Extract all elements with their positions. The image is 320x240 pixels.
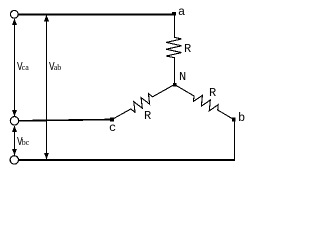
arrow Vbc shaft xyxy=(14,126,16,155)
node c (junction dot) xyxy=(110,118,114,122)
terminal circle mid-left xyxy=(10,117,18,125)
node a (junction dot) xyxy=(172,12,176,16)
arrowhead Vab up xyxy=(44,15,49,21)
node N (junction dot) xyxy=(173,83,177,87)
label R2 value xyxy=(144,110,151,122)
label Vca xyxy=(17,61,29,73)
label c xyxy=(109,122,116,134)
resistor R3 (diagonal, N to b) xyxy=(175,85,234,120)
resistor R1 (vertical, a to N) xyxy=(166,14,181,85)
terminal circle bottom-left xyxy=(10,156,18,164)
wire bottom: b leg to bottom terminal xyxy=(18,159,235,161)
label N xyxy=(179,71,186,83)
label Vab xyxy=(49,61,61,73)
resistor R2 (diagonal, N to c) xyxy=(112,85,175,120)
arrowhead Vab down xyxy=(44,153,49,160)
wire: c to middle terminal xyxy=(19,120,112,121)
label a xyxy=(178,6,185,18)
label R3 value xyxy=(209,87,216,99)
label b xyxy=(238,112,245,124)
label R1 value xyxy=(184,43,191,55)
wire: b down to bottom xyxy=(234,120,236,161)
node b (junction dot) xyxy=(232,118,236,122)
arrow Vab shaft xyxy=(46,15,48,159)
arrowhead Vbc up xyxy=(12,126,17,133)
wire top: terminal to node a xyxy=(18,14,175,16)
arrow Vca shaft xyxy=(14,19,16,116)
terminal circle top-left xyxy=(10,10,18,18)
arrowhead Vca down xyxy=(12,110,17,117)
label Vbc xyxy=(17,136,29,148)
arrowhead Vbc down xyxy=(12,149,17,156)
arrowhead Vca up xyxy=(12,19,17,26)
